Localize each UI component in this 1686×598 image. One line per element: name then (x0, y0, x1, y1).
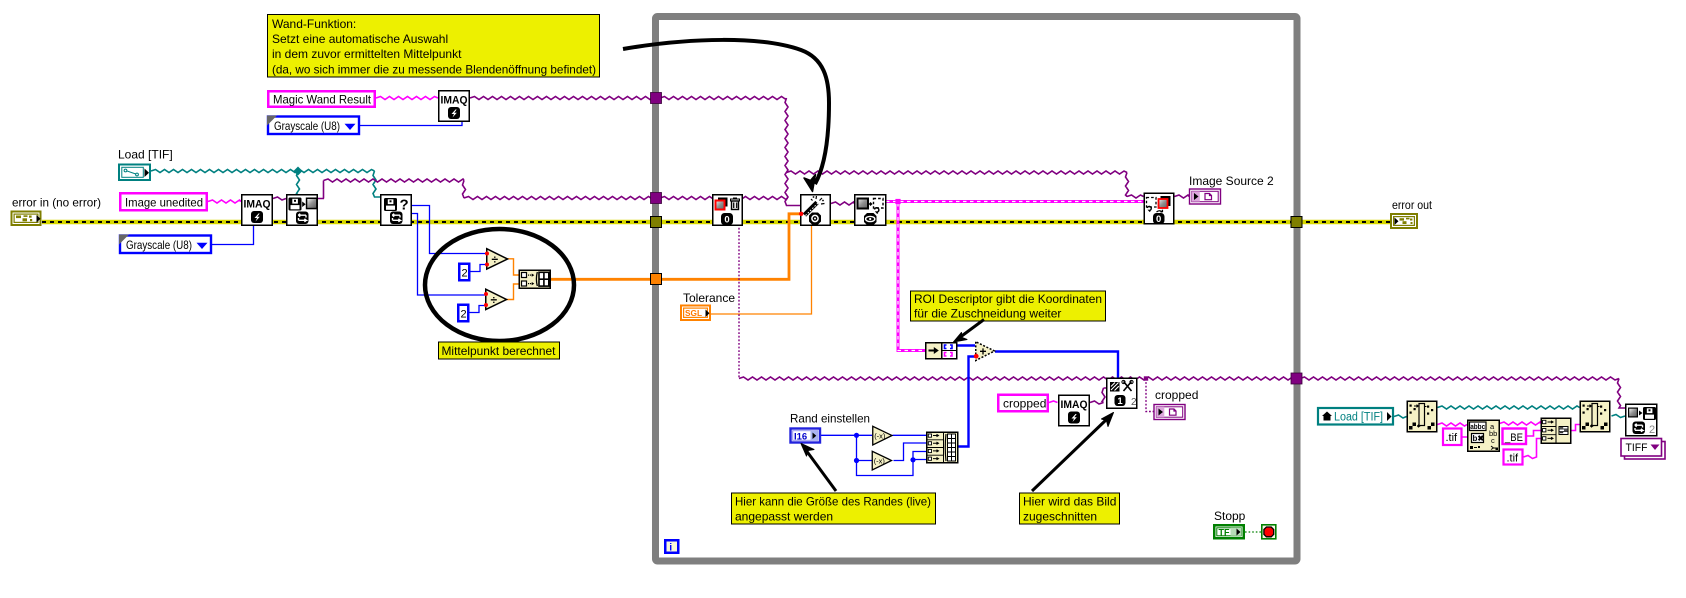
svg-text:I16: I16 (794, 432, 807, 443)
wire: purple main horizontal image wire y=378.5 across loop to right tunnel T6 (739, 377, 1297, 380)
while loop frame (656, 17, 1298, 562)
tunnel T5 olive right (y=222) (1291, 217, 1302, 228)
wire: error wire (yellow/black dashed) from error in to error out (42, 220, 1390, 224)
node: IMAQ Write File 2 (1626, 404, 1657, 436)
wire: purple image net B inside loop (tunnel T2 to wand) (660, 197, 788, 200)
svg-text:_BE: _BE (1504, 432, 1523, 444)
svg-text:in dem zuvor ermittelten Mitte: in dem zuvor ermittelten Mittelpunkt (272, 47, 462, 61)
wire: teal path wire from Load [TIF] control (151, 170, 381, 198)
wire: purple image wire U3 to left tunnel T2 (318, 179, 656, 200)
constant: TIFF enum (1621, 439, 1665, 460)
svg-text:TIFF: TIFF (1626, 442, 1648, 454)
wire: blue I16 Rand wires to negate triangles and bundle B2 (821, 435, 926, 475)
control: Grayscale (U8) top (267, 116, 359, 135)
control: Grayscale (U8) bottom (119, 235, 211, 254)
wire: orange wires divide outputs to bundle B1 (507, 259, 519, 300)
wire: purple wand to select rectangle node (831, 202, 854, 205)
wire: purple IMAQ U5 to crop node (1090, 388, 1106, 404)
arrow: Hier wird label to crop node (1032, 419, 1107, 491)
wire: blue wire Grayscale(U8) top to IMAQ U1 (360, 121, 462, 126)
svg-text:abbc: abbc (1470, 422, 1485, 431)
wire: green dotted TF to stop button (1245, 531, 1261, 533)
svg-text:2: 2 (461, 309, 467, 321)
wire: teal strip path to build path (1438, 406, 1580, 409)
svg-text:Stopp: Stopp (1214, 509, 1246, 523)
indicator: cropped (1154, 405, 1185, 420)
node: IMAQ clear overlay / extract src (1144, 193, 1174, 225)
constant: _BE (1503, 429, 1527, 445)
node: unbundle / ROI to rect (926, 343, 957, 359)
label: Image unedited (120, 193, 207, 210)
tunnel T6 purple right (y=378.5) (1291, 373, 1302, 384)
node B2: bundle (Rand cluster, 4 inputs) (927, 432, 958, 463)
node: negate 1 (873, 426, 892, 445)
svg-text:Rand einstellen: Rand einstellen (790, 412, 870, 426)
node: IMAQ Dispose (trash) inside loop (713, 195, 743, 226)
node U5: IMAQ Create (cropped) (1059, 395, 1090, 426)
wire: purple image wire IMAQ U1 to left tunnel T1 (470, 97, 656, 100)
svg-text:Hier kann die Größe des Randes: Hier kann die Größe des Randes (live) (735, 495, 931, 509)
node: build path (mirrored) (1580, 401, 1610, 432)
svg-text:b✖: b✖ (1473, 434, 1485, 443)
node B1: bundle (Mittelpunkt cluster) (519, 270, 550, 288)
node: negate 2 (872, 451, 891, 470)
constant: 2 (first) (459, 264, 469, 281)
label: Magic Wand Result (268, 91, 375, 107)
wire: pink cropped label to IMAQ U5 (1049, 401, 1058, 403)
right section: node local variable Load [TIF] (1318, 408, 1393, 425)
node: strip path (1407, 401, 1437, 432)
svg-text:(da, wo sich immer die zu mess: (da, wo sich immer die zu messende Blend… (272, 63, 596, 77)
svg-text:Load [TIF]: Load [TIF] (1334, 412, 1383, 424)
node U4: IMAQ file query (floppy ?) (381, 195, 412, 226)
tunnel T4 orange left (y=279) (651, 274, 662, 285)
arrow: ROI label to unbundle (961, 320, 984, 337)
wire: purple clear node to Image Source 2 indicator (1175, 195, 1190, 198)
control: Tolerance SGL (681, 306, 710, 321)
svg-text:÷: ÷ (491, 293, 498, 307)
control: Load [TIF] path control (119, 165, 150, 181)
indicator: error out cluster (1391, 214, 1417, 228)
svg-text:+: + (980, 345, 987, 359)
arrow: big curved arrow from comment to magic wand (623, 40, 829, 184)
indicator: Image Source 2 (1190, 189, 1221, 204)
svg-text:(-x): (-x) (874, 432, 886, 441)
label: Hier wird das Bild note (1020, 493, 1120, 524)
node U1: IMAQ Create (top) (439, 91, 470, 122)
wire: blue wire Grayscale(U8) bottom to IMAQ U2 (212, 226, 254, 245)
svg-text:Mittelpunkt berechnet: Mittelpunkt berechnet (442, 344, 557, 358)
wire: purple from right tunnel T6 to IMAQ write node (1300, 377, 1625, 408)
comment: yellow Wand-Funktion box (268, 15, 600, 78)
tunnel T3 olive left (y=222) (651, 217, 662, 228)
wire: pink ROI wire select node to clear node with branch down to unbundle (886, 199, 1144, 351)
node: IMAQ Select Rectangle (855, 195, 886, 226)
control: stop button (1262, 525, 1276, 539)
svg-text:.tif: .tif (1446, 432, 1459, 444)
wire: blue unbundle to add function (957, 344, 975, 346)
svg-text:angepasst werden: angepasst werden (735, 510, 833, 524)
wire: orange cluster wire bundle B1 to left tunnel T4 and magic wand seed input (551, 214, 800, 279)
svg-text:c: c (1491, 436, 1495, 445)
svg-text:?: ? (400, 197, 409, 214)
control: TF boolean (1214, 525, 1244, 538)
svg-text:1: 1 (1117, 396, 1123, 407)
svg-text:2: 2 (462, 268, 468, 280)
tunnel T1 purple left (y=98) (651, 93, 662, 104)
node U3: IMAQ ReadFile (floppy to image) (287, 195, 318, 226)
svg-text:cropped: cropped (1155, 388, 1198, 402)
svg-text:.tif: .tif (1507, 453, 1520, 465)
node: IMAQ Magic Wand (799, 195, 830, 226)
svg-text:2: 2 (1649, 424, 1655, 436)
svg-text:Image unedited: Image unedited (125, 196, 203, 210)
node: search and replace string (1468, 420, 1500, 451)
svg-text:SGL: SGL (685, 308, 702, 318)
svg-text:i: i (669, 542, 672, 554)
constant: 2 (second) (458, 305, 468, 322)
wire: pink label wire Magic Wand Result to IMAQ U1 (376, 97, 438, 100)
constant: .tif (1) (1443, 429, 1462, 446)
svg-text:0: 0 (1156, 214, 1161, 225)
svg-text:Wand-Funktion:: Wand-Funktion: (272, 17, 356, 31)
wire: magenta string wires right section (1438, 422, 1580, 459)
svg-text:÷: ÷ (492, 253, 499, 267)
node: divide function 1 (485, 249, 508, 269)
svg-text:Load [TIF]: Load [TIF] (118, 148, 173, 162)
svg-text:cropped: cropped (1003, 397, 1046, 411)
svg-text:error out: error out (1392, 198, 1433, 212)
wire: pink label wire Image unedited to IMAQ U2 (208, 200, 241, 203)
svg-text:Tolerance: Tolerance (683, 291, 735, 305)
terminal: loop iteration i (665, 540, 678, 553)
label: cropped (magenta source) (998, 395, 1048, 412)
svg-text:error in (no error): error in (no error) (12, 196, 101, 210)
wire: blue bundle B2 output up to add function (958, 357, 975, 447)
label: ROI Descriptor note (911, 291, 1106, 321)
svg-text:Hier wird das Bild: Hier wird das Bild (1023, 495, 1116, 509)
junction: teal diamond on path wire (294, 167, 303, 176)
node: concatenate strings (1541, 418, 1571, 443)
node: divide function 2 (484, 289, 507, 309)
svg-text:Magic Wand Result: Magic Wand Result (273, 93, 372, 107)
wire: blue wires U4 to divide triangles (412, 206, 487, 296)
arrow: Hier kann label to I16 (806, 450, 837, 492)
constant: .tif (2) (1504, 450, 1523, 465)
label: Hier kann die Groesse note (732, 493, 936, 524)
wire: purple dashed vertical from net B down to main horizontal (738, 199, 740, 379)
node: add function (974, 342, 995, 361)
node: IMAQ Extract (crop) (1107, 378, 1137, 408)
svg-text:(-x): (-x) (874, 457, 886, 466)
wire: blue wires from constants 2 to divide triangles (469, 265, 486, 313)
control: error in cluster (12, 212, 41, 226)
svg-text:TF: TF (1219, 528, 1230, 538)
svg-text:2: 2 (1131, 397, 1137, 408)
wire: purple image net A inside loop (tunnel T1 to clear node and wand) (660, 97, 1144, 206)
tunnel T2 purple left (y=198) (651, 193, 662, 204)
wire: purple image wire U2 to U3 (273, 197, 286, 200)
svg-text:Setzt eine automatische Auswah: Setzt eine automatische Auswahl (272, 32, 448, 46)
annotation: black ellipse around Mittelpunkt group (425, 229, 574, 341)
wire: teal build path to write node (1612, 415, 1626, 418)
control: I16 Rand (791, 429, 821, 443)
svg-text:Image Source 2: Image Source 2 (1189, 174, 1274, 188)
node U2: IMAQ Create (left) (242, 195, 273, 226)
label: Mittelpunkt berechnet (439, 342, 560, 359)
junction dots on I16 wires (854, 433, 859, 438)
svg-text:zugeschnitten: zugeschnitten (1023, 510, 1097, 524)
wire: blue add output to crop node top (995, 352, 1118, 378)
svg-text:für die Zuschneidung weiter: für die Zuschneidung weiter (914, 307, 1061, 321)
wire: teal local variable to strip path node (1394, 415, 1407, 418)
wire: thin orange Tolerance wire to magic wand bottom (711, 226, 812, 314)
svg-text:ROI Descriptor gibt die Koordi: ROI Descriptor gibt die Koordinaten (914, 292, 1102, 306)
svg-text:0: 0 (724, 215, 729, 226)
wire: purple drop to cropped indicator (1146, 379, 1154, 412)
